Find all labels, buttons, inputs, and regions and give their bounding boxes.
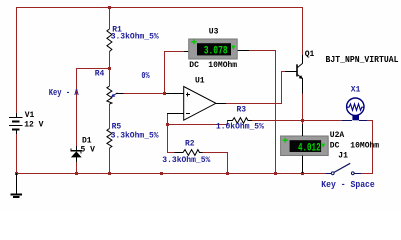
svg-text:10MOhm: 10MOhm: [208, 61, 237, 70]
voltmeter U3 body: [189, 39, 238, 59]
voltmeter U3 arrow mark: [232, 46, 236, 51]
ground symbol: [10, 173, 22, 197]
junction top rail R1: [108, 6, 111, 9]
op-amp plus input marker: [186, 93, 190, 97]
switch J1 right contact circle: [351, 172, 354, 175]
wire R5 bottom to ground rail: [109, 148, 111, 173]
junction key-A branch: [108, 67, 111, 70]
svg-text:4.012: 4.012: [298, 143, 321, 155]
wire R1 top drop from rail: [109, 7, 111, 29]
U3 left lead stub: [184, 51, 189, 53]
voltmeter U2A body: [281, 124, 329, 173]
svg-text:3.3kOhm_5%: 3.3kOhm_5%: [111, 32, 159, 41]
wire R4 wiper to op-amp plus input: [124, 93, 167, 95]
wire R2 drop to ground rail: [227, 152, 229, 173]
Q1 emitter lead: [298, 75, 303, 94]
D1 lead stubs: [76, 146, 78, 162]
svg-text:3.078: 3.078: [204, 45, 228, 57]
svg-text:3.3kOhm_5%: 3.3kOhm_5%: [111, 131, 159, 140]
op-amp minus input marker: [186, 113, 190, 115]
svg-text:V1: V1: [25, 111, 35, 120]
junction D1 ground rail: [75, 172, 78, 175]
wire base stub horizontal: [281, 71, 285, 73]
lamp X1 circle: [347, 98, 364, 115]
svg-text:X1: X1: [351, 85, 361, 94]
wire R2 left from minus column: [167, 152, 175, 154]
voltmeter U3 plus mark: [191, 39, 196, 44]
wire top rail from battery to Q1 collector: [16, 7, 302, 9]
wire op-amp minus input vertical: [167, 113, 169, 152]
wire switch right lead red part: [361, 173, 373, 175]
svg-text:U1: U1: [195, 77, 205, 86]
Q1 collector lead: [298, 55, 303, 68]
lamp X1 lead right: [359, 120, 367, 122]
wire left rail bottom (battery - to ground rail): [16, 134, 18, 173]
op-amp U1 triangle: [184, 87, 216, 121]
svg-text:12 V: 12 V: [24, 121, 43, 130]
resistor R5 zigzag: [107, 129, 112, 149]
svg-text:R5: R5: [112, 122, 122, 131]
wire U3 left branch horizontal: [164, 51, 184, 53]
switch J1 left contact circle: [331, 172, 334, 175]
svg-text:DC: DC: [189, 61, 199, 70]
wire U3 right terminal horizontal: [249, 50, 276, 52]
wire D1 bottom to ground rail: [76, 162, 78, 173]
svg-text:R2: R2: [185, 140, 195, 149]
junction battery ground rail corner: [15, 172, 18, 175]
junction minus node R3 wire: [166, 123, 169, 126]
op-amp input lead minus: [167, 113, 184, 115]
Q1 base lead: [285, 71, 297, 73]
wire minus node to R3 left horizontal: [167, 124, 228, 126]
switch J1 left lead: [326, 173, 331, 175]
svg-text:BJT_NPN_VIRTUAL: BJT_NPN_VIRTUAL: [326, 54, 399, 65]
switch J1 right lead: [354, 173, 361, 175]
svg-text:R3: R3: [237, 106, 247, 115]
wire lamp right to corner: [367, 120, 373, 122]
battery V1 plates: [9, 113, 23, 134]
wire key-A branch horizontal: [76, 68, 109, 70]
U3 right lead stub: [237, 50, 249, 52]
wire right column down to switch: [372, 120, 374, 173]
R4 wiper arrow: [111, 93, 124, 97]
svg-text:DC: DC: [330, 142, 340, 151]
op-amp output lead: [216, 103, 227, 105]
wire Q1 collector from top rail: [302, 7, 304, 56]
wire R4 bottom to R5 top: [109, 104, 111, 129]
D1 zener cathode bar: [71, 148, 82, 153]
voltmeter U2A plus mark: [283, 138, 288, 143]
svg-text:3.3kOhm_5%: 3.3kOhm_5%: [162, 156, 210, 165]
wire emitter node down to U2A top: [302, 120, 304, 124]
resistor R1 zigzag: [107, 29, 112, 52]
lamp X1 lead left: [342, 120, 352, 122]
svg-text:Q1: Q1: [305, 50, 315, 59]
junction U3 drop ground rail: [274, 172, 277, 175]
voltmeter U2A arrow mark: [321, 144, 325, 149]
svg-text:D1: D1: [82, 137, 92, 146]
wire output riser to Q1 base: [281, 71, 283, 103]
switch J1 blade: [334, 163, 350, 172]
svg-text:1.0kOhm_5%: 1.0kOhm_5%: [216, 123, 264, 132]
Q1 base bar: [296, 64, 298, 76]
resistor R3 zigzag: [228, 118, 253, 124]
wire R3 left jog vertical: [227, 120, 229, 125]
resistor R2 zigzag: [175, 150, 203, 156]
wire R3 right to emitter node: [252, 120, 304, 122]
lamp X1 filament: [347, 104, 364, 110]
Q1 emitter arrowhead: [299, 75, 303, 79]
wire key-A branch vertical down to D1: [76, 68, 78, 147]
R4 potentiometer zigzag: [107, 86, 112, 104]
junction emitter node: [301, 119, 304, 122]
junction R5 ground rail: [108, 172, 111, 175]
svg-text:U3: U3: [209, 28, 219, 37]
junction mid ground rail: [160, 172, 163, 175]
svg-text:R4: R4: [95, 70, 105, 79]
wire U3 right drop to ground rail: [275, 50, 277, 173]
svg-text:5 V: 5 V: [81, 145, 96, 154]
svg-text:0%: 0%: [141, 71, 150, 81]
D1 zener triangle: [71, 151, 82, 157]
wire R2 right to drop: [202, 152, 227, 154]
lamp X1 base: [352, 115, 359, 120]
junction U2A ground rail: [301, 172, 304, 175]
svg-text:U2A: U2A: [330, 131, 345, 140]
wire left rail top (battery + to top rail): [16, 7, 18, 113]
wire R1 bottom to R4 top: [109, 52, 111, 87]
svg-text:Key - Space: Key - Space: [321, 180, 375, 190]
wire emitter node to lamp row: [303, 120, 342, 122]
wire Q1 emitter down to node: [302, 93, 304, 120]
wire bottom ground rail: [16, 173, 326, 175]
wire op-amp output horizontal: [226, 103, 282, 105]
op-amp input lead plus: [166, 93, 184, 95]
junction plus input U3 branch: [163, 92, 166, 95]
svg-text:J1: J1: [338, 152, 348, 161]
junction R2 ground rail: [226, 172, 229, 175]
wire U3 left branch vertical: [164, 51, 166, 93]
svg-text:Key - A: Key - A: [49, 88, 79, 98]
svg-text:10MOhm: 10MOhm: [350, 142, 379, 151]
